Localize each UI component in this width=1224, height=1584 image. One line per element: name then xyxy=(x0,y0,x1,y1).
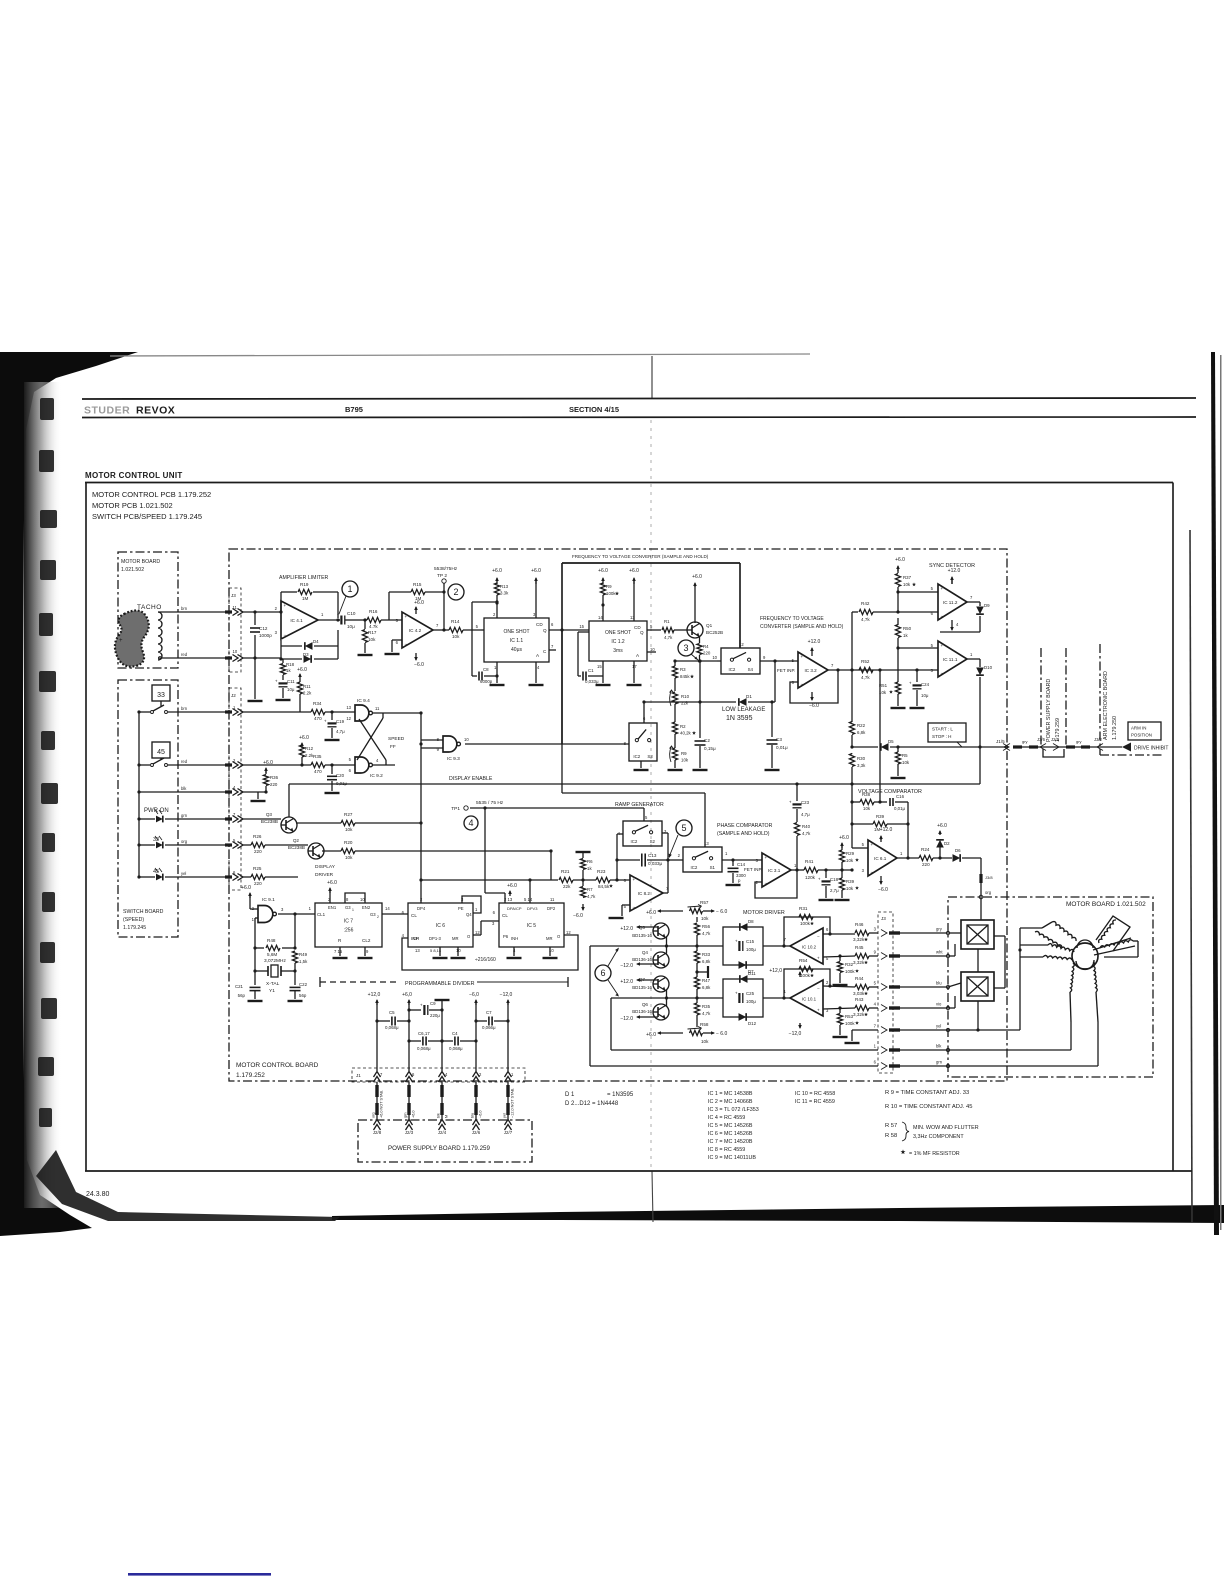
svg-text:C10: C10 xyxy=(347,611,356,616)
ground under C14 xyxy=(726,884,741,886)
power supply board bottom dash-dot box xyxy=(358,1120,532,1162)
svg-text:10: 10 xyxy=(464,737,469,742)
svg-text:D11: D11 xyxy=(748,971,756,976)
svg-text:C15: C15 xyxy=(746,939,755,944)
svg-text:Q: Q xyxy=(640,630,644,635)
resistor R18 1k xyxy=(279,657,282,660)
fv output to comparator vertical xyxy=(878,668,881,671)
TP1 vertical feed to IC5 xyxy=(484,808,486,893)
svg-text:4: 4 xyxy=(468,818,473,828)
IC10.1 supply -12.0 xyxy=(799,1023,801,1028)
supply +6.0 pin 13 xyxy=(633,578,635,584)
svg-text:SWITCH BOARD: SWITCH BOARD xyxy=(123,909,164,915)
svg-text:−6.0: −6.0 xyxy=(809,703,819,709)
svg-text:C1: C1 xyxy=(588,668,594,673)
svg-text:blu: blu xyxy=(471,1113,475,1118)
svg-text:BD135-16: BD135-16 xyxy=(632,933,652,938)
motor board right dash-dot box xyxy=(948,897,1153,1077)
svg-text:Q: Q xyxy=(543,628,547,633)
svg-text:C7: C7 xyxy=(486,1010,492,1015)
svg-text:−: − xyxy=(871,870,874,875)
IC7 ground CL2 xyxy=(364,947,366,956)
resistor R22 6.8k xyxy=(851,670,853,716)
yel wire to ground xyxy=(852,1029,878,1031)
svg-text:+: + xyxy=(817,1008,820,1013)
svg-text:C11: C11 xyxy=(287,679,295,684)
svg-text:−12,0: −12,0 xyxy=(789,1031,802,1037)
power rail +12.0 xyxy=(376,1000,378,1005)
IC3.2 output node xyxy=(836,668,839,671)
wire J2.2 to R35 xyxy=(243,764,311,766)
one-shot1 Q output wire xyxy=(549,629,589,631)
capacitor C5 0.068u xyxy=(377,1020,390,1022)
svg-text:blu: blu xyxy=(936,981,942,986)
svg-text:+6.0: +6.0 xyxy=(531,568,541,574)
IC8.2 output wire xyxy=(663,892,668,894)
ground under R51 xyxy=(891,707,906,709)
IC5 supply +6.0 xyxy=(509,891,511,896)
IC10.2 pin6 wire xyxy=(828,932,831,935)
transistor Q5 BD135-16 xyxy=(653,923,669,939)
svg-text:R20: R20 xyxy=(344,840,353,845)
svg-text:IC2: IC2 xyxy=(728,667,735,672)
svg-text:+12.0: +12.0 xyxy=(880,827,893,833)
svg-text:+: + xyxy=(420,1003,423,1008)
svg-text:C9: C9 xyxy=(430,1001,436,1006)
svg-text:C13: C13 xyxy=(648,853,657,858)
svg-text:blk: blk xyxy=(181,786,187,791)
power supply board right channel xyxy=(1040,648,1042,745)
mid ground stub xyxy=(695,970,698,973)
S1 pin13 wire up xyxy=(704,793,706,847)
svg-text:56p: 56p xyxy=(238,993,246,998)
resistor R34 470 xyxy=(311,709,325,714)
svg-text:7 15: 7 15 xyxy=(334,949,343,954)
svg-text:4,7k: 4,7k xyxy=(861,675,870,680)
svg-text:D9: D9 xyxy=(984,603,990,608)
S3 ground xyxy=(640,761,642,768)
outer frame of schematic sheet xyxy=(85,482,1173,484)
supply +6.0 to R11 xyxy=(299,674,301,680)
svg-text:1k: 1k xyxy=(903,633,908,638)
svg-text:+: + xyxy=(941,586,944,591)
svg-text:3,32k: 3,32k xyxy=(853,937,865,942)
svg-text:−: − xyxy=(765,881,768,886)
svg-text:120k: 120k xyxy=(805,875,816,880)
svg-text:EN2: EN2 xyxy=(362,905,371,910)
svg-text:−12.0: −12.0 xyxy=(620,1016,633,1022)
supply +12.0 above IC6.1 xyxy=(880,836,882,842)
svg-text:+: + xyxy=(765,855,768,860)
svg-text:+: + xyxy=(801,654,804,659)
R57 arrows +6.0 -6.0 xyxy=(658,910,683,912)
IC11.2 pin4 down arrow xyxy=(951,623,953,630)
svg-text:R47: R47 xyxy=(702,978,711,983)
svg-text:MOTOR CONTROL UNIT: MOTOR CONTROL UNIT xyxy=(85,471,183,480)
svg-text:TP 2: TP 2 xyxy=(437,573,447,579)
svg-text:PWR ON: PWR ON xyxy=(144,808,169,814)
svg-text:J2/4: J2/4 xyxy=(438,1130,447,1135)
svg-text:DPV3: DPV3 xyxy=(527,906,538,911)
op-amp IC 10.2 pointing left xyxy=(790,928,823,964)
IC6.1 output to R24 xyxy=(897,857,919,859)
ground under R5 xyxy=(891,777,906,779)
svg-text:R9: R9 xyxy=(606,584,612,589)
IC10.1 pin3 wire xyxy=(823,1008,855,1009)
svg-text:+6,0 NOT STAB.: +6,0 NOT STAB. xyxy=(380,1090,384,1118)
svg-text:R57: R57 xyxy=(700,900,709,905)
Q3 emitter to R27 line xyxy=(293,823,295,832)
book binding black strip left edge xyxy=(0,352,138,1236)
svg-text:13: 13 xyxy=(346,705,351,710)
svg-text:4,7k: 4,7k xyxy=(802,831,811,836)
supply -6.0 below IC6.1 xyxy=(880,877,882,884)
ground under R53 xyxy=(833,1036,848,1038)
svg-text:J2/5: J2/5 xyxy=(1051,737,1060,742)
svg-text:÷216/160: ÷216/160 xyxy=(475,957,496,963)
svg-text:+: + xyxy=(405,614,408,619)
svg-text:IC 9 = MC 14011UB: IC 9 = MC 14011UB xyxy=(708,1155,756,1161)
diode box D8 C15 D7 xyxy=(723,927,763,965)
resistor R3 845k star xyxy=(674,661,676,666)
ground under R32 xyxy=(833,984,848,986)
power rail +6.0 xyxy=(408,1000,410,1005)
resistor R56 4.7k xyxy=(694,923,699,935)
svg-text:+: + xyxy=(871,842,874,847)
switch box IC2 S2 ramp xyxy=(623,821,662,846)
svg-text:D8: D8 xyxy=(748,919,754,924)
svg-text:24.3.80: 24.3.80 xyxy=(86,1191,109,1198)
svg-text:gry: gry xyxy=(1076,739,1082,744)
svg-text:ARM IN: ARM IN xyxy=(1131,726,1146,731)
svg-text:D10: D10 xyxy=(984,665,993,670)
svg-text:red: red xyxy=(181,652,188,657)
resistor R6 1k with top ground xyxy=(576,851,591,853)
svg-text:R9: R9 xyxy=(681,751,687,756)
Q6 base arrow -12.0 xyxy=(637,1016,658,1018)
switch box IC2 S3 xyxy=(629,723,657,761)
svg-text:C22: C22 xyxy=(299,982,308,987)
tacho coil winding xyxy=(158,612,162,660)
switch board dash-dot box xyxy=(118,680,178,937)
vertical resistor chain xyxy=(696,917,698,922)
svg-text:5,6M: 5,6M xyxy=(267,952,277,957)
svg-text:R16: R16 xyxy=(369,609,378,614)
svg-text:FET INP.: FET INP. xyxy=(777,668,795,673)
wire S1 to IC3.1 xyxy=(722,859,762,861)
transistor Q1 BC252B xyxy=(687,622,703,638)
potentiometer R58 10k xyxy=(690,1030,703,1035)
svg-text:(SAMPLE AND HOLD): (SAMPLE AND HOLD) xyxy=(717,831,770,837)
svg-text:1: 1 xyxy=(347,584,352,594)
svg-text:4,7k: 4,7k xyxy=(587,894,596,899)
svg-text:14: 14 xyxy=(385,906,390,911)
svg-text:1k: 1k xyxy=(286,668,291,673)
bottom left page curl shadow xyxy=(36,1150,340,1221)
power rail -12.0 xyxy=(507,1000,509,1005)
resistor R16 4.7k xyxy=(367,617,381,622)
wire J2.1 to R34 xyxy=(243,711,311,713)
svg-text:+12.0: +12.0 xyxy=(948,568,961,574)
svg-text:+: + xyxy=(324,719,327,724)
svg-text:0,15μ: 0,15μ xyxy=(704,746,716,751)
svg-text:blk: blk xyxy=(437,1113,441,1118)
center fold dotted line through schematic xyxy=(650,420,652,1171)
S4 pin12 wire to box top xyxy=(739,640,741,648)
svg-text:Q4: Q4 xyxy=(642,950,649,955)
svg-text::256: :256 xyxy=(344,928,354,934)
svg-text:+6.0: +6.0 xyxy=(646,910,656,916)
svg-text:R7: R7 xyxy=(587,887,593,892)
svg-text:R18: R18 xyxy=(286,662,295,667)
freq to voltage converter box xyxy=(562,562,740,564)
resistor R38 10k xyxy=(850,800,853,803)
Q1 emitter to R4 xyxy=(699,637,701,644)
svg-text:org: org xyxy=(985,890,992,895)
svg-text:D5: D5 xyxy=(888,739,894,744)
svg-text:+: + xyxy=(909,681,912,686)
star legend xyxy=(901,1149,906,1154)
capacitor C2 0.15u xyxy=(699,661,701,738)
svg-text:Y1: Y1 xyxy=(269,988,275,994)
resistor R32 100k star xyxy=(838,954,841,957)
svg-text:+: + xyxy=(633,877,636,882)
wire J2.5 to R26 xyxy=(243,844,251,846)
svg-text:grn: grn xyxy=(404,1113,408,1119)
svg-text:CL: CL xyxy=(411,913,417,918)
svg-text:IC 5: IC 5 xyxy=(527,923,536,929)
svg-text:IC 5 = MC 14526B: IC 5 = MC 14526B xyxy=(708,1123,753,1129)
yel wire into motor board xyxy=(948,1029,1020,1031)
wire C12 to ground xyxy=(254,658,256,699)
center fold solid line bottom xyxy=(652,1171,653,1222)
svg-text:10k: 10k xyxy=(368,637,376,642)
ground under C19 xyxy=(325,739,340,741)
svg-text:R52: R52 xyxy=(861,659,870,664)
svg-text:+6.0: +6.0 xyxy=(299,735,309,741)
op-amp IC 11.2 xyxy=(938,584,967,620)
svg-text:− 6.0: − 6.0 xyxy=(716,1031,727,1037)
svg-text:3ms: 3ms xyxy=(613,648,623,654)
svg-text:−6.0: −6.0 xyxy=(414,662,424,668)
svg-text:org: org xyxy=(372,1113,376,1119)
svg-text:100k: 100k xyxy=(800,973,811,978)
svg-text:S1: S1 xyxy=(710,865,716,870)
Q4 base arrow -12.0 xyxy=(637,963,658,965)
programmable divider bracket xyxy=(319,982,321,988)
IC6 grounds xyxy=(439,947,441,956)
feedback resistor R19 1M xyxy=(275,611,281,613)
svg-text:SWITCH PCB/SPEED 1.179.245: SWITCH PCB/SPEED 1.179.245 xyxy=(92,512,202,521)
connector J3 pin 10 xyxy=(225,656,232,659)
resistor R33 6.8k xyxy=(694,951,699,963)
svg-text:R40: R40 xyxy=(802,824,811,829)
supply +12.0 above IC11.2 xyxy=(951,577,953,584)
svg-text:IC 3.2: IC 3.2 xyxy=(804,668,817,673)
svg-text:ARM ELECTRONIC BOARD: ARM ELECTRONIC BOARD xyxy=(1103,671,1109,740)
capacitor C20 0.01u xyxy=(330,763,333,766)
grn wire to J3 pin6 xyxy=(590,1065,878,1067)
svg-text:grn: grn xyxy=(181,813,188,818)
svg-text:1.179.252: 1.179.252 xyxy=(236,1072,265,1079)
display enable long bus xyxy=(289,783,980,785)
svg-text:SPEED: SPEED xyxy=(388,736,405,742)
resistor R30 3.3k xyxy=(849,754,854,767)
svg-text:−: − xyxy=(405,642,408,647)
svg-text:R42: R42 xyxy=(861,601,870,606)
svg-text:BC238B: BC238B xyxy=(288,845,305,850)
svg-text:ONE SHOT: ONE SHOT xyxy=(605,630,631,636)
svg-text:−: − xyxy=(817,934,820,939)
svg-text:CL2: CL2 xyxy=(362,938,371,943)
circled 2 callout xyxy=(448,584,464,600)
svg-text:12: 12 xyxy=(475,930,480,935)
S2 pin4 loop xyxy=(617,833,623,835)
svg-text:100k: 100k xyxy=(606,591,616,596)
svg-text:J3: J3 xyxy=(881,916,886,921)
svg-text:0,066μ: 0,066μ xyxy=(482,1025,496,1030)
svg-text:R12: R12 xyxy=(305,746,314,751)
svg-text:40,2k: 40,2k xyxy=(680,731,692,736)
capacitor C3 0.01u xyxy=(770,700,773,703)
resistor R51 10k star xyxy=(897,648,899,682)
svg-text:BD135-16: BD135-16 xyxy=(632,985,652,990)
svg-text:R34: R34 xyxy=(313,701,322,706)
svg-text:10μ: 10μ xyxy=(921,693,929,698)
feedback diode D4 xyxy=(281,645,302,647)
svg-text:IC 9.3: IC 9.3 xyxy=(447,756,460,762)
svg-text:R25: R25 xyxy=(253,866,262,871)
svg-text:10μ: 10μ xyxy=(347,624,355,629)
svg-text:220: 220 xyxy=(922,862,930,867)
IC6 to IC5 wire xyxy=(473,934,481,936)
svg-text:R31: R31 xyxy=(799,906,808,911)
svg-text:STUDER: STUDER xyxy=(84,405,130,417)
svg-text:brn: brn xyxy=(181,706,188,711)
svg-text:blk: blk xyxy=(936,1044,942,1049)
power rail -6.0 xyxy=(475,1000,477,1005)
svg-text:+: + xyxy=(735,991,738,996)
resistor R42 4.7k xyxy=(852,611,858,613)
svg-text:1,5k: 1,5k xyxy=(299,959,308,964)
svg-text:+: + xyxy=(818,877,821,882)
cable bundle 2 xyxy=(1066,745,1075,748)
svg-text:10k: 10k xyxy=(863,806,871,811)
svg-text:= 1% MF RESISTOR: = 1% MF RESISTOR xyxy=(909,1151,960,1157)
resistor R2 40.2k star xyxy=(672,722,677,734)
svg-text:TACHO: TACHO xyxy=(137,604,162,611)
svg-text:11: 11 xyxy=(550,897,555,902)
circled 5 callout xyxy=(676,820,692,836)
resistor R36 220 xyxy=(264,790,267,793)
svg-text:0,068μ: 0,068μ xyxy=(449,1046,463,1051)
svg-text:+6.0: +6.0 xyxy=(692,574,702,580)
resistor R17 10k to ground xyxy=(363,618,366,621)
svg-text:MR: MR xyxy=(452,936,459,941)
svg-text:Q2: Q2 xyxy=(293,838,300,843)
svg-text:IC 4 = RC 4559: IC 4 = RC 4559 xyxy=(708,1115,745,1121)
ground under R28 xyxy=(835,899,850,901)
svg-text:MOTOR DRIVER: MOTOR DRIVER xyxy=(743,910,785,916)
transistor Q2 BC238B xyxy=(308,843,324,859)
op-amp IC 11.1 xyxy=(938,641,967,677)
svg-text:+12.0: +12.0 xyxy=(620,926,633,932)
resistor R23 84.5k star xyxy=(596,877,610,882)
J1 wires down with bundles xyxy=(376,1082,378,1120)
speed switch 45 box xyxy=(152,742,170,758)
svg-text:10: 10 xyxy=(233,649,238,654)
svg-text:6,8k: 6,8k xyxy=(857,730,866,735)
svg-text:DP2: DP2 xyxy=(547,906,556,911)
svg-text:0,01μ: 0,01μ xyxy=(336,781,348,786)
svg-text:+6.0: +6.0 xyxy=(895,557,905,563)
svg-text:BD136-16: BD136-16 xyxy=(632,1009,652,1014)
svg-text:DISPLAY: DISPLAY xyxy=(315,864,336,870)
IC7 supply +6.0 xyxy=(329,888,331,893)
svg-text:IC 3.1: IC 3.1 xyxy=(768,868,781,873)
svg-text:3,3k: 3,3k xyxy=(857,763,866,768)
svg-text:DISPLAY ENABLE: DISPLAY ENABLE xyxy=(449,776,493,782)
svg-text:10k: 10k xyxy=(345,827,353,832)
wire S4 to IC3.2 xyxy=(760,660,798,662)
svg-text:100μ: 100μ xyxy=(746,999,756,1004)
svg-text:10k: 10k xyxy=(681,758,689,763)
svg-text:FREQUENCY TO VOLTAGE: FREQUENCY TO VOLTAGE xyxy=(760,616,824,622)
svg-text:+: + xyxy=(119,638,123,644)
svg-text:J3/8: J3/8 xyxy=(985,875,993,880)
svg-text:470: 470 xyxy=(314,716,322,721)
svg-text:12: 12 xyxy=(346,716,351,721)
svg-text:100k: 100k xyxy=(800,921,811,926)
svg-text:R32: R32 xyxy=(845,962,854,967)
svg-text:−6,0: −6,0 xyxy=(479,1111,483,1119)
svg-text:IC 1 = MC 14538B: IC 1 = MC 14538B xyxy=(708,1091,753,1097)
svg-text:MOTOR CONTROL BOARD: MOTOR CONTROL BOARD xyxy=(236,1062,319,1069)
one-shot2 output wire to R1 xyxy=(647,629,661,631)
wire tacho red to J3 pin 10 xyxy=(158,657,225,659)
resistor R13 3.3k +6.0 xyxy=(496,578,498,584)
svg-text:Q1: Q1 xyxy=(706,623,713,628)
svg-text:IC 1.2: IC 1.2 xyxy=(611,639,625,645)
ground under C22 xyxy=(288,1000,303,1002)
svg-text:J2/7: J2/7 xyxy=(504,1130,513,1135)
diode D6 xyxy=(953,854,961,862)
svg-text:R5: R5 xyxy=(902,753,908,758)
svg-text:+6.0: +6.0 xyxy=(629,568,639,574)
diode D5 xyxy=(850,745,853,748)
supply +12.0 above IC3.2 xyxy=(811,648,813,656)
svg-text:IC 4.2: IC 4.2 xyxy=(409,628,422,633)
svg-text:+6,0: +6,0 xyxy=(402,992,412,998)
svg-text:+: + xyxy=(284,603,287,608)
svg-text:IC2: IC2 xyxy=(630,839,637,844)
svg-text:wht: wht xyxy=(936,950,943,955)
potentiometer R10 22k xyxy=(672,692,677,704)
svg-text:R36: R36 xyxy=(270,775,279,780)
svg-text:R38: R38 xyxy=(862,792,871,797)
svg-text:+12,0: +12,0 xyxy=(769,968,782,974)
ground IC1.2 A pin xyxy=(633,661,635,683)
blk wire xyxy=(139,791,225,793)
capacitor C16 0.01u xyxy=(889,798,891,806)
wire bus to R21 xyxy=(530,879,558,881)
timing capacitor C8 6000p xyxy=(471,602,473,676)
svg-text:STOP : H: STOP : H xyxy=(932,734,952,739)
speed switch 33 box xyxy=(152,685,170,701)
one shot IC 1.2 box xyxy=(589,621,647,661)
header rule top xyxy=(82,398,1196,399)
resistor R53 100k star xyxy=(838,1006,841,1009)
